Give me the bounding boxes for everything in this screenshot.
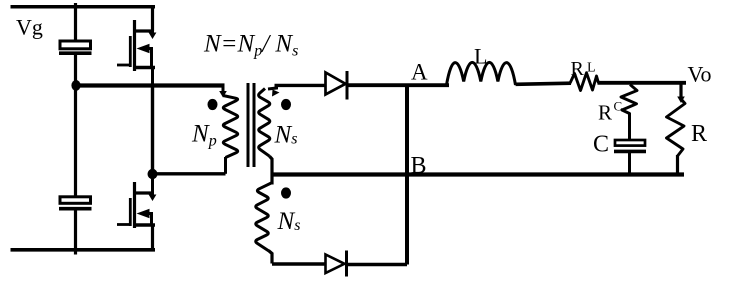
wire: capacitor branch middle [74,55,77,196]
resistor Rc [621,85,637,114]
svg-text:N=Np/ Ns: N=Np/ Ns [203,31,298,60]
capacitor Cin1 bottom plate [59,51,92,55]
arrowhead: primary top [219,91,227,98]
wire: node A vertical [405,85,409,264]
wire: center tap [270,156,273,184]
transistor Q2 gate lead [117,223,130,226]
wire: half-bridge midpoint vertical [151,85,154,174]
wire: Rc to C [628,113,631,140]
wire: node B horizontal [272,172,685,176]
diode D2 triangle [326,255,345,274]
wire: primary bottom drop [224,157,227,174]
transistor Q1 source bar [134,66,155,69]
wire: capacitor branch lower [74,211,77,255]
polarity dot Ns2 [281,187,291,198]
svg-text:R: R [571,58,585,80]
svg-text:Np: Np [191,121,217,150]
transistor Q2 drain wire [151,174,154,193]
wire: R bottom stub [676,155,679,176]
transistor Q2 drain arrowhead [149,195,157,202]
wire: bottom input rail [11,248,156,252]
transistor Q1 drain wire [151,7,154,31]
transistor Q2 arrow tail [148,214,152,226]
diode D1 cathode bar [346,71,349,100]
wire: L to RL [516,83,572,84]
diode D1 triangle [326,73,346,95]
transistor Q1 body arrow [137,44,150,53]
polarity dot Np [208,99,218,110]
junction: capacitor midpoint node [71,80,80,91]
svg-text:C: C [593,132,609,158]
svg-text:C: C [614,99,623,114]
transistor Q1 drain bar [135,29,155,32]
wire: capacitor branch upper [74,3,77,41]
transformer core line 2 [253,83,256,167]
transistor Q2 gate bar [129,198,132,226]
wire: primary top drop [222,85,225,92]
transistor Q1 arrow tail [148,49,152,68]
arrowhead: R top [677,97,685,104]
transistor Q1 gate bar [129,36,132,67]
junction: Q2 drain node [148,169,158,179]
wire: C to node B wire [628,153,631,174]
wire: RL to Vo corner [598,81,687,85]
transistor Q2 source bar [134,223,155,226]
wire: Ns2 to diode D2 [272,262,326,265]
wire: midpoint to primary top [76,83,225,87]
capacitor C bottom plate [614,150,646,154]
winding Ns1 coil [259,89,270,157]
wire: D2 to node A drop [347,263,408,267]
capacitor Cin2 top plate [60,197,91,204]
transistor Q2 body arrow [137,209,150,218]
arrowhead: secondary top [272,90,280,97]
svg-text:Vo: Vo [688,62,712,87]
svg-text:Ns: Ns [274,122,298,149]
svg-text:Ns: Ns [277,208,301,235]
transformer core line 1 [247,83,250,167]
resistor R [667,99,686,156]
wire: Vo to R stub [679,83,682,97]
transistor Q1 channel [133,20,136,71]
svg-text:B: B [411,153,427,179]
diode D2 cathode bar [345,251,348,277]
wire: primary bottom to Q2 drain node [153,172,226,175]
wire: D1 through node A to inductor L [347,83,449,87]
winding Np coil [223,96,238,158]
capacitor Cin1 top plate [60,41,91,49]
svg-text:Vg: Vg [16,15,43,40]
resistor RL [570,73,599,91]
transistor Q1 gate lead [117,64,130,67]
wire: secondary top to diode D1 [275,84,327,87]
transistor Q2 source wire [151,225,154,252]
capacitor Cin2 bottom plate [59,207,92,211]
inductor L [447,62,516,85]
svg-text:R: R [598,101,612,125]
svg-text:R: R [691,121,707,147]
wire: Ns2 bottom bend [269,251,273,264]
transistor Q2 drain bar [135,191,155,194]
wire: secondary top stub [268,85,277,89]
transistor Q1 source wire [151,68,154,88]
transistor Q2 channel [133,182,136,228]
polarity dot Ns1 [281,99,291,110]
svg-text:A: A [411,60,428,85]
winding Ns2 coil [256,183,272,251]
svg-text:L: L [587,61,596,76]
wire: top input rail [11,5,156,9]
transistor Q1 drain arrowhead [149,33,157,40]
capacitor C top plate [615,140,645,146]
svg-text:L: L [474,44,487,69]
